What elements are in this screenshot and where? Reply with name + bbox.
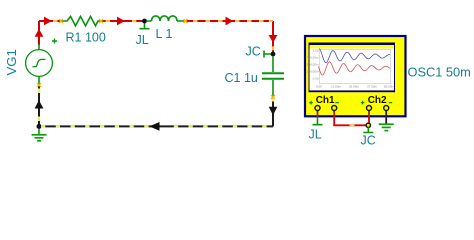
wire xyxy=(272,21,274,53)
jumper JL scope xyxy=(313,118,323,125)
inductor L1 xyxy=(147,16,184,21)
screen plot frame xyxy=(320,50,391,84)
label Ch2 xyxy=(361,95,392,106)
svg-text:0.00: 0.00 xyxy=(313,77,319,81)
jumper JL xyxy=(140,23,150,29)
oscilloscope OSC1 xyxy=(305,36,406,116)
wire xyxy=(38,21,40,45)
pin cross markers xyxy=(37,19,275,99)
jumper JC scope xyxy=(363,127,373,132)
screen waveform blue xyxy=(319,49,390,63)
node junction JC scope xyxy=(366,123,370,127)
svg-text:JC: JC xyxy=(246,45,261,59)
svg-text:R1 100: R1 100 xyxy=(66,31,106,45)
svg-text:250.00m: 250.00m xyxy=(307,70,319,74)
label JL scope xyxy=(309,128,322,142)
wire xyxy=(334,118,368,126)
svg-text:JC: JC xyxy=(361,134,376,148)
ground xyxy=(32,128,47,141)
label JL xyxy=(136,33,149,47)
current arrow xyxy=(117,17,125,26)
wire xyxy=(385,118,387,124)
current arrow xyxy=(35,100,44,108)
label C1 1u xyxy=(225,71,258,85)
ground scope xyxy=(379,124,394,130)
pin leg Ch2- xyxy=(385,110,387,118)
wire dash xyxy=(350,124,355,126)
jumper JC xyxy=(264,51,271,58)
current arrow xyxy=(269,35,278,43)
wire xyxy=(272,97,274,126)
wire xyxy=(39,125,273,127)
current arrow xyxy=(35,29,44,37)
voltage generator VG1 xyxy=(26,39,57,85)
node JL xyxy=(142,19,147,24)
label JC xyxy=(246,45,261,59)
svg-text:12.50m: 12.50m xyxy=(331,85,342,89)
pin leg Ch2+ xyxy=(368,110,370,118)
screen waveform red xyxy=(319,62,391,75)
pin leg Ch1+ xyxy=(317,110,319,118)
label Ch1 xyxy=(309,95,339,106)
oscilloscope screen xyxy=(309,43,396,93)
label VG1 xyxy=(4,49,19,75)
svg-text:OSC1 50m: OSC1 50m xyxy=(408,65,471,80)
resistor R1 xyxy=(61,16,104,25)
terminal Ch2- xyxy=(384,106,389,111)
svg-text:Ch1: Ch1 xyxy=(316,95,335,106)
svg-text:JL: JL xyxy=(309,128,322,142)
current arrow xyxy=(44,17,52,26)
current arrow xyxy=(226,17,234,26)
svg-text:750.00m: 750.00m xyxy=(307,56,319,60)
screen axis tick labels xyxy=(307,49,395,89)
pin leg Ch1- xyxy=(333,110,335,118)
svg-text:JL: JL xyxy=(136,33,149,47)
label R1 100 xyxy=(66,31,106,45)
terminal Ch1- xyxy=(332,106,337,111)
wire xyxy=(100,20,145,22)
wire xyxy=(185,20,273,22)
wire xyxy=(38,84,40,126)
wire dash marks xyxy=(39,89,273,127)
svg-text:500.00m: 500.00m xyxy=(307,63,319,67)
svg-text:Ch2: Ch2 xyxy=(368,95,387,106)
wire xyxy=(368,118,370,126)
svg-text:L 1: L 1 xyxy=(156,27,173,41)
svg-text:VG1: VG1 xyxy=(4,49,19,75)
current arrow xyxy=(149,122,159,131)
label L1 xyxy=(156,27,173,41)
svg-text:25.00m: 25.00m xyxy=(349,85,360,89)
node JC xyxy=(271,52,276,57)
svg-text:50.00m: 50.00m xyxy=(384,85,395,89)
wire xyxy=(39,20,61,22)
terminal Ch2+ xyxy=(367,106,372,111)
svg-text:1.00: 1.00 xyxy=(313,49,319,53)
current arrow xyxy=(269,107,278,115)
svg-text:C1 1u: C1 1u xyxy=(225,71,258,85)
wire dash marks xyxy=(53,21,273,50)
label OSC1 50m xyxy=(408,65,471,80)
terminal Ch1+ xyxy=(315,106,320,111)
svg-text:37.50m: 37.50m xyxy=(367,85,378,89)
node junction left xyxy=(37,124,42,129)
label JC scope xyxy=(361,134,376,148)
svg-text:0.00: 0.00 xyxy=(316,85,322,89)
capacitor C1 xyxy=(262,56,284,97)
